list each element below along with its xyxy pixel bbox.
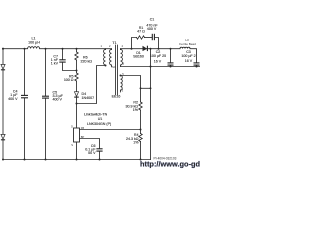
svg-text:47 Ω: 47 Ω — [137, 30, 145, 34]
svg-text:100 µF 2: 100 µF 2 — [181, 54, 195, 58]
svg-text:400 V: 400 V — [147, 27, 157, 31]
svg-text:D: D — [71, 124, 73, 128]
svg-text:1%: 1% — [133, 108, 139, 112]
svg-text:Ferrite Bead: Ferrite Bead — [179, 42, 196, 46]
svg-text:U1: U1 — [98, 117, 103, 121]
svg-text:NC: NC — [112, 65, 116, 69]
svg-text:100 Ω: 100 Ω — [64, 78, 74, 82]
svg-text:16 V: 16 V — [185, 59, 193, 63]
svg-text:50 V: 50 V — [88, 151, 96, 155]
svg-text:100 µF 25: 100 µF 25 — [150, 54, 166, 58]
svg-text:400 V: 400 V — [8, 97, 18, 101]
svg-text:1 kV: 1 kV — [51, 62, 59, 66]
svg-text:1N4007: 1N4007 — [82, 96, 95, 100]
svg-text:T1: T1 — [112, 41, 116, 45]
svg-text:http://www.go-gd: http://www.go-gd — [140, 159, 200, 168]
svg-text:EE16: EE16 — [112, 94, 121, 98]
svg-text:LNK304GN (P): LNK304GN (P) — [87, 122, 111, 126]
svg-text:16 V: 16 V — [154, 59, 162, 63]
svg-text:BP: BP — [81, 135, 85, 139]
svg-text:FB: FB — [81, 126, 85, 130]
svg-text:LinkSwitch-TN: LinkSwitch-TN — [84, 112, 108, 116]
svg-text:S: S — [71, 143, 73, 147]
svg-text:1%: 1% — [133, 141, 139, 145]
svg-text:400 V: 400 V — [53, 97, 63, 101]
svg-text:C1: C1 — [150, 17, 155, 21]
svg-text:220 kΩ: 220 kΩ — [81, 59, 93, 63]
svg-text:100 µH: 100 µH — [28, 41, 40, 45]
svg-text:SB160: SB160 — [133, 55, 144, 59]
